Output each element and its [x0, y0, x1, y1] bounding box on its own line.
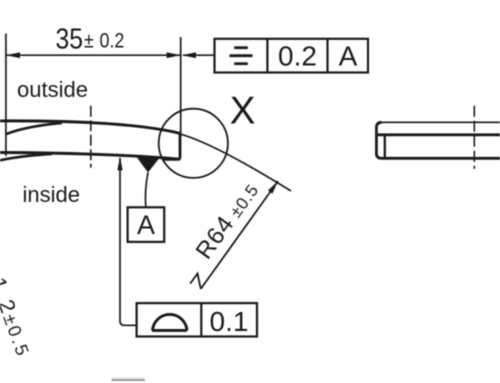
dimension line 35	[6, 54, 181, 56]
leader of profile FCF	[120, 158, 137, 325]
extension line right	[180, 37, 182, 134]
svg-text:A: A	[137, 210, 155, 240]
thickness dimension text rotated (cropped)	[0, 274, 37, 361]
profile FCF frame	[137, 303, 257, 336]
svg-text:0.2: 0.2	[278, 41, 317, 72]
side view end face line	[384, 135, 386, 159]
cropped gray element at bottom	[112, 377, 145, 379]
datum triangle filled	[136, 156, 160, 172]
datum leader	[145, 173, 148, 208]
svg-text:0.1: 0.1	[210, 306, 249, 337]
svg-text:inside: inside	[23, 182, 80, 207]
dimension arrowhead right	[167, 52, 181, 58]
leader from FCF to extension line	[183, 54, 215, 56]
svg-text:35: 35	[56, 23, 83, 55]
datum A frame	[128, 207, 165, 242]
R64 dimension zigzag	[190, 274, 201, 289]
R64 arrowhead	[268, 181, 278, 194]
svg-text:outside: outside	[17, 77, 88, 102]
detail circle X	[159, 109, 228, 178]
side view top edge thin	[380, 121, 500, 123]
profile FCF leader arrowhead	[117, 157, 122, 171]
side view centerline dashed	[473, 106, 475, 169]
extension line left	[5, 34, 7, 157]
arc extension R64 thin	[181, 134, 291, 191]
part bottom surface arc	[0, 153, 180, 160]
leader arrowhead pointing left	[182, 52, 196, 58]
dimension 35±0.2 value text	[56, 23, 125, 55]
R64±0.5 text	[191, 177, 265, 264]
svg-text:0.2: 0.2	[100, 29, 125, 53]
side view outer outline	[376, 122, 500, 158]
centerline dashed	[90, 106, 92, 168]
part bottom inner edge curve	[0, 154, 52, 160]
surface profile symbol	[152, 314, 187, 330]
svg-text:X: X	[230, 90, 256, 133]
part top surface arc	[0, 121, 181, 134]
dimension arrowhead left	[6, 52, 20, 58]
symmetry FCF frame	[215, 39, 369, 73]
svg-text:±: ±	[84, 29, 94, 53]
part top inner edge curve	[6, 123, 62, 134]
side view inner edge line	[377, 133, 500, 136]
svg-text:A: A	[339, 41, 358, 72]
symmetry symbol	[230, 48, 253, 64]
part right end edge	[163, 134, 180, 160]
R64 dimension line	[201, 181, 278, 289]
